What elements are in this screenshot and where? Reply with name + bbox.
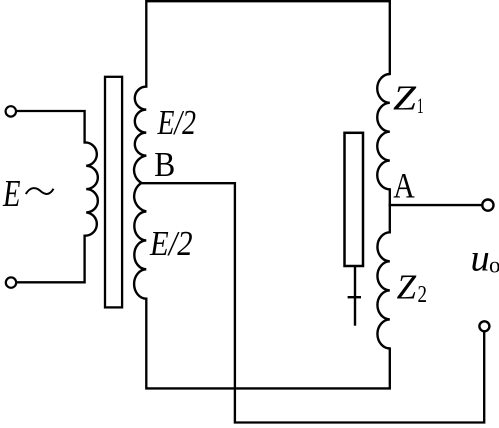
wire top link: secondary top to Z1 top: [146, 1, 389, 86]
svg-text:u: u: [471, 238, 490, 280]
svg-text:o: o: [489, 253, 499, 278]
wire from center tap B down and around to bottom-right terminal: [142, 183, 485, 422]
transformer core bar: [105, 77, 122, 308]
inductor secondary winding lower half E/2: [134, 183, 146, 299]
svg-text:Z: Z: [397, 267, 417, 306]
svg-text:2: 2: [418, 282, 428, 308]
tuning slug stem: [354, 266, 356, 326]
svg-text:1: 1: [417, 93, 424, 118]
label AC tilde: [26, 188, 54, 194]
svg-text:B: B: [154, 145, 175, 184]
tuning slug body: [345, 133, 364, 266]
wire node A to top-right output terminal: [390, 204, 487, 206]
svg-text:E/2: E/2: [157, 103, 196, 142]
wire Z1 bottom through node A to Z2 top: [389, 189, 391, 232]
tuning slug adjustment tick: [348, 296, 361, 298]
inductor secondary winding upper half E/2: [134, 87, 146, 183]
svg-text:E: E: [2, 173, 20, 215]
wire from primary winding to bottom-left terminal: [16, 236, 85, 283]
terminal input top-left: [6, 106, 16, 116]
inductor Z1: [377, 74, 390, 189]
wire secondary bottom to Z2 bottom: [146, 299, 389, 389]
svg-text:A: A: [393, 166, 415, 206]
wire from top-left terminal to primary winding: [16, 111, 85, 143]
svg-text:E/2: E/2: [149, 224, 192, 263]
terminal output top-right: [482, 200, 493, 211]
svg-text:Z: Z: [393, 78, 417, 117]
terminal output bottom-right: [479, 321, 489, 331]
inductor primary winding of transformer: [85, 142, 98, 235]
inductor Z2: [377, 232, 389, 348]
terminal input bottom-left: [6, 277, 16, 287]
